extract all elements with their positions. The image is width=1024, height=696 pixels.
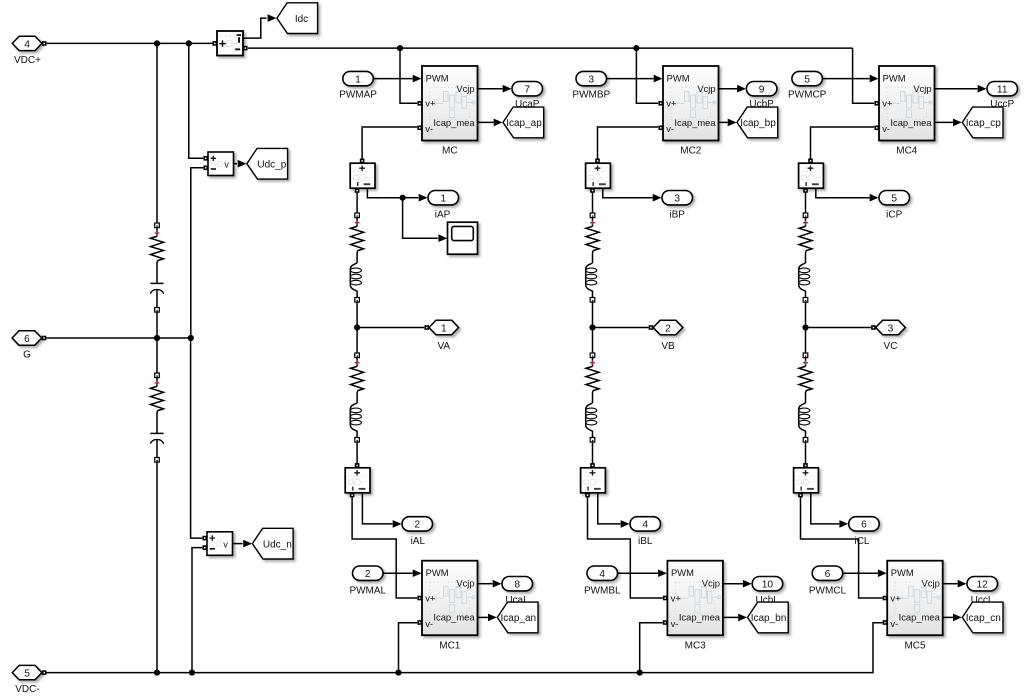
wire sensor i-output phase C <box>816 188 870 197</box>
svg-text:Icap_bn: Icap_bn <box>751 613 787 624</box>
goto tag Icap_bp <box>737 107 778 138</box>
series RL branch lower phase C <box>799 353 812 442</box>
inport 3 PWMBP <box>576 71 607 85</box>
wire lower sensor to MC3 v+ <box>588 497 663 598</box>
svg-text:Icap_mea: Icap_mea <box>433 117 475 128</box>
svg-text:5: 5 <box>24 669 30 680</box>
current measurement block Idc sensor <box>217 31 243 56</box>
arrowhead PWM input MC3 <box>658 569 667 577</box>
svg-text:Idc: Idc <box>295 14 308 25</box>
svg-text:PWMAP: PWMAP <box>339 90 377 101</box>
svg-text:VC: VC <box>884 341 898 352</box>
wire MC Vcjp output <box>478 88 503 90</box>
goto tag Icap_cp <box>962 107 1003 138</box>
inport 2 PWMAL <box>353 566 384 580</box>
svg-text:Vcjp: Vcjp <box>456 578 474 589</box>
wire rail to MC4 v+ <box>853 48 875 103</box>
input port 6 G <box>12 331 42 345</box>
svg-text:VDC-: VDC- <box>15 684 39 695</box>
svg-text:5: 5 <box>891 193 897 204</box>
wire Udc_p output <box>234 163 237 165</box>
svg-text:v-: v- <box>666 123 674 134</box>
svg-text:12: 12 <box>977 579 989 590</box>
wire PWMAP to MC PWM <box>373 78 413 80</box>
svg-text:VA: VA <box>437 341 450 352</box>
arrowhead PWM input MC4 <box>870 75 879 83</box>
outport 12 UccL <box>967 577 998 591</box>
wire MC4 Icap_mea output <box>935 121 953 123</box>
svg-text:Udc_n: Udc_n <box>263 539 292 550</box>
svg-text:4: 4 <box>24 39 30 50</box>
svg-text:PWMCL: PWMCL <box>809 586 847 597</box>
svg-text:Icap_mea: Icap_mea <box>899 612 941 623</box>
arrowhead into outport 9 <box>737 85 746 93</box>
arrowhead into outport 8 <box>493 580 502 588</box>
input port 4 VDC+ <box>12 36 42 50</box>
wire DC+ measured rail <box>248 47 853 49</box>
outport 5 iCP <box>879 191 910 205</box>
goto tag Icap_bn <box>748 602 789 633</box>
svg-text:v-: v- <box>882 123 890 134</box>
svg-text:3: 3 <box>588 74 594 85</box>
wire MC2 Icap_mea output <box>719 121 728 123</box>
node junction VDC-/left rail <box>154 670 160 676</box>
svg-text:iCL: iCL <box>854 536 869 547</box>
wire to Udc_p + input <box>189 45 203 158</box>
svg-text:iBP: iBP <box>669 209 685 220</box>
node VC junction <box>802 324 808 330</box>
svg-text:Icap_an: Icap_an <box>501 613 537 624</box>
arrowhead into iAP port <box>419 194 428 202</box>
svg-text:Icap_cn: Icap_cn <box>966 613 1001 624</box>
wire MC4 v- to sensor <box>811 127 875 160</box>
svg-text:v-: v- <box>671 618 679 629</box>
node junction G/Udc rail <box>188 335 194 341</box>
wire MC1 Vcjp output <box>478 583 493 585</box>
series RL branch lower phase B <box>586 353 599 442</box>
svg-text:MC: MC <box>442 146 458 157</box>
svg-text:Icap_mea: Icap_mea <box>679 612 721 623</box>
subsystem block MC4 <box>879 66 935 141</box>
svg-text:2: 2 <box>665 324 671 335</box>
svg-text:Icap_bp: Icap_bp <box>740 118 776 129</box>
inport 5 PWMCP <box>792 71 823 85</box>
wire sensor i-output phase A <box>367 188 402 197</box>
svg-text:Icap_mea: Icap_mea <box>433 612 475 623</box>
arrowhead into outport 10 <box>743 580 752 588</box>
svg-text:v-: v- <box>425 123 433 134</box>
subsystem block MC5 <box>887 561 943 636</box>
wire PWMCP to MC4 PWM <box>822 78 870 80</box>
wire Udc_n output <box>233 543 243 545</box>
svg-text:Vcjp: Vcjp <box>913 83 931 94</box>
wire RC upper to G rail <box>156 312 158 336</box>
svg-text:PWMAL: PWMAL <box>349 586 386 597</box>
svg-text:7: 7 <box>524 84 530 95</box>
svg-text:MC1: MC1 <box>439 640 461 651</box>
svg-text:4: 4 <box>642 520 648 531</box>
wire left rail upper segment <box>156 45 158 223</box>
svg-text:3: 3 <box>674 193 680 204</box>
wire G rail to RC lower <box>156 338 158 373</box>
wire G rail <box>46 337 191 339</box>
svg-text:2: 2 <box>414 520 420 531</box>
wire junction to iAP port <box>403 197 419 199</box>
node junction VDC+/Udc_p <box>186 40 192 46</box>
voltage measurement block Udc_n <box>207 532 233 556</box>
outport 6 iCL <box>849 517 880 531</box>
arrowhead into Idc tag <box>268 14 277 22</box>
svg-text:MC2: MC2 <box>680 146 702 157</box>
wire lower sensor to MC5 v+ <box>801 497 883 598</box>
connection port 1 VA <box>429 320 459 334</box>
wire MC5 Icap_mea output <box>943 616 953 618</box>
arrowhead into Icap_ap tag <box>494 119 503 127</box>
svg-text:10: 10 <box>762 579 774 590</box>
wire Idc sensor i-output to Idc tag <box>243 18 266 38</box>
svg-text:9: 9 <box>759 84 765 95</box>
goto tag Idc <box>277 3 318 34</box>
svg-text:MC4: MC4 <box>896 146 918 157</box>
svg-text:8: 8 <box>514 579 520 590</box>
wire junction to scope <box>403 198 438 239</box>
wire MC2 v- to sensor <box>598 127 659 160</box>
arrowhead PWM input MC1 <box>413 569 422 577</box>
wire to VB port <box>593 327 649 329</box>
wire MC1 Icap_mea output <box>478 616 488 618</box>
wire lower sensor i-output phase B <box>598 493 621 524</box>
svg-text:MC5: MC5 <box>904 640 926 651</box>
svg-text:v+: v+ <box>890 592 901 603</box>
outport 3 iBP <box>662 191 693 205</box>
wire lower sensor to MC1 v+ <box>352 497 417 598</box>
inport 4 PWMBL <box>587 566 618 580</box>
wire MC1 v- to VDC- rail <box>399 623 418 671</box>
wire PWMBP to MC2 PWM <box>606 78 654 80</box>
node junction VDC-/Udc_n <box>189 670 195 676</box>
outport 10 UcbL <box>752 577 783 591</box>
arrowhead into Icap_an tag <box>488 614 497 622</box>
svg-text:Icap_mea: Icap_mea <box>890 117 932 128</box>
arrowhead into Icap_bp tag <box>728 119 737 127</box>
current sensor phase A upper <box>350 163 375 188</box>
goto tag Udc_n <box>252 528 293 559</box>
outport 11 UccP <box>987 82 1018 96</box>
wire PWMBL to MC3 PWM <box>617 572 658 574</box>
svg-text:MC3: MC3 <box>685 640 707 651</box>
arrowhead PWM input MC2 <box>654 75 663 83</box>
outport 7 UcaP <box>512 82 543 96</box>
svg-text:PWMBP: PWMBP <box>572 90 610 101</box>
series RL branch upper phase C <box>799 213 812 302</box>
wire PWMCL to MC5 PWM <box>842 572 878 574</box>
arrowhead into outport 7 <box>503 85 512 93</box>
goto tag Icap_cn <box>962 602 1003 633</box>
wire rail to MC v+ <box>400 48 417 103</box>
arrowhead into Icap_cp tag <box>953 119 962 127</box>
svg-text:iCP: iCP <box>886 209 902 220</box>
wire MC Icap_mea output <box>478 121 494 123</box>
series RC branch lower (left rail) <box>150 373 164 462</box>
goto tag Udc_p <box>247 148 288 179</box>
subsystem block MC1 <box>422 561 478 636</box>
svg-text:v+: v+ <box>425 98 436 109</box>
node VB junction <box>589 324 595 330</box>
node junction VDC-/MC3 v- <box>637 670 643 676</box>
svg-text:Vcjp: Vcjp <box>456 83 474 94</box>
current sensor phase B upper <box>586 163 611 188</box>
wire G node to Udc_n + input <box>191 340 203 538</box>
arrowhead into iBL port <box>621 520 630 528</box>
svg-text:1: 1 <box>441 324 447 335</box>
outport 2 iAL <box>402 517 433 531</box>
svg-text:3: 3 <box>888 324 894 335</box>
wire sensor to RL branch upper phase A <box>356 193 358 213</box>
input port 5 VDC- <box>12 665 42 679</box>
series RL branch upper phase A <box>350 213 363 302</box>
wire RL branch to lower sensor phase C <box>805 442 807 464</box>
wire to VA port <box>357 327 424 329</box>
svg-text:Icap_cp: Icap_cp <box>966 118 1001 129</box>
wire rail to MC2 v+ <box>636 48 658 103</box>
outport 4 iBL <box>630 517 661 531</box>
arrowhead PWM input MC <box>413 75 422 83</box>
svg-text:Vcjp: Vcjp <box>702 578 720 589</box>
inport 6 PWMCL <box>812 566 843 580</box>
svg-text:iBL: iBL <box>638 536 653 547</box>
wire lower sensor i-output phase A <box>362 493 392 524</box>
svg-text:PWMCP: PWMCP <box>788 90 827 101</box>
node junction VDC-/MC1 v- <box>395 670 401 676</box>
svg-text:6: 6 <box>825 569 831 580</box>
arrowhead into Icap_bn tag <box>738 614 747 622</box>
outport 1 iAP <box>428 191 459 205</box>
wire to VC port <box>806 327 871 329</box>
svg-text:PWMBL: PWMBL <box>584 586 621 597</box>
series RC branch upper (left rail) <box>150 223 164 312</box>
connection port 2 VB <box>653 320 683 334</box>
svg-text:v+: v+ <box>671 592 682 603</box>
wire sensor to RL branch upper phase B <box>592 193 594 213</box>
series RL branch lower phase A <box>350 353 363 442</box>
svg-text:2: 2 <box>365 569 371 580</box>
scope block <box>448 222 478 254</box>
wire PWMAL to MC1 PWM <box>383 572 413 574</box>
connection port 3 VC <box>876 320 906 334</box>
wire MC3 Vcjp output <box>723 583 743 585</box>
svg-text:v+: v+ <box>425 592 436 603</box>
svg-text:Icap_mea: Icap_mea <box>674 117 716 128</box>
wire Udc_p - input down to G node <box>191 168 203 336</box>
svg-text:PWM: PWM <box>426 72 449 83</box>
arrowhead into scope <box>438 234 447 242</box>
node junction rail/MC v+ <box>397 45 403 51</box>
node junction VDC+/left rail <box>154 40 160 46</box>
current sensor phase C upper <box>799 163 824 188</box>
wire RL to RL through VC node <box>805 302 807 353</box>
svg-text:Vcjp: Vcjp <box>922 578 940 589</box>
svg-text:Udc_p: Udc_p <box>257 159 286 170</box>
wire MC5 Vcjp output <box>943 583 958 585</box>
wire Udc_n - input down to VDC- rail <box>192 548 202 671</box>
node junction G/left rail <box>154 335 160 341</box>
subsystem block MC3 <box>667 561 723 636</box>
wire MC3 Icap_mea output <box>723 616 738 618</box>
wire MC v- to sensor <box>362 127 417 160</box>
arrowhead into Udc_n tag <box>243 540 252 548</box>
wire MC2 Vcjp output <box>719 88 737 90</box>
subsystem block MC2 <box>663 66 719 141</box>
arrowhead into iBP port <box>653 194 662 202</box>
svg-text:Icap_ap: Icap_ap <box>506 118 542 129</box>
svg-text:5: 5 <box>804 74 810 85</box>
wire sensor i-output phase B <box>603 188 653 197</box>
svg-text:PWM: PWM <box>667 72 690 83</box>
svg-text:iAP: iAP <box>435 209 451 220</box>
svg-text:iAL: iAL <box>411 536 426 547</box>
svg-text:v-: v- <box>425 618 433 629</box>
svg-text:G: G <box>23 350 31 361</box>
wire sensor to RL branch upper phase C <box>805 193 807 213</box>
svg-text:6: 6 <box>861 520 867 531</box>
svg-text:PWM: PWM <box>891 567 914 578</box>
node VA junction <box>354 324 360 330</box>
arrowhead into iCP port <box>870 194 879 202</box>
goto tag Icap_ap <box>503 107 544 138</box>
wire RL branch to lower sensor phase A <box>356 442 358 464</box>
wire left rail lower segment <box>156 462 158 670</box>
wire VDC+ rail <box>47 42 213 44</box>
wire RL to RL through VB node <box>592 302 594 353</box>
arrowhead into outport 11 <box>978 85 987 93</box>
svg-text:PWM: PWM <box>671 567 694 578</box>
subsystem block MC <box>422 66 478 141</box>
wire MC4 Vcjp output <box>935 88 978 90</box>
svg-text:PWM: PWM <box>426 567 449 578</box>
svg-text:v-: v- <box>890 618 898 629</box>
svg-text:PWM: PWM <box>883 72 906 83</box>
wire MC3 v- to VDC- rail <box>640 623 663 671</box>
svg-text:v+: v+ <box>666 98 677 109</box>
goto tag Icap_an <box>497 602 538 633</box>
outport 8 UcaL <box>502 577 533 591</box>
wire RL branch to lower sensor phase B <box>592 442 594 464</box>
wire RL to RL through VA node <box>356 302 358 353</box>
arrowhead PWM input MC5 <box>878 569 887 577</box>
svg-text:v+: v+ <box>882 98 893 109</box>
arrowhead into iCL port <box>839 520 848 528</box>
svg-text:VB: VB <box>661 341 675 352</box>
current sensor phase B lower <box>581 468 606 493</box>
svg-text:11: 11 <box>997 84 1008 95</box>
arrowhead into iAL port <box>393 520 402 528</box>
voltage measurement block Udc_p <box>208 152 234 176</box>
arrowhead into Icap_cn tag <box>953 614 962 622</box>
inport 1 PWMAP <box>343 71 374 85</box>
arrowhead into Udc_p tag <box>238 160 247 168</box>
svg-text:v: v <box>223 538 228 549</box>
svg-text:VDC+: VDC+ <box>14 55 41 66</box>
wire VDC- bottom rail <box>47 623 883 673</box>
wire lower sensor i-output phase C <box>811 493 840 524</box>
svg-text:v: v <box>224 159 229 170</box>
svg-text:1: 1 <box>440 193 446 204</box>
node junction rail/MC2 v+ <box>633 45 639 51</box>
series RL branch upper phase B <box>586 213 599 302</box>
outport 9 UcbP <box>746 82 777 96</box>
current sensor phase A lower <box>345 468 370 493</box>
svg-text:Vcjp: Vcjp <box>697 83 715 94</box>
node junction iAP <box>400 195 406 201</box>
arrowhead into outport 12 <box>958 580 967 588</box>
svg-text:1: 1 <box>355 74 361 85</box>
current sensor phase C lower <box>794 468 819 493</box>
svg-text:6: 6 <box>24 334 30 345</box>
svg-text:4: 4 <box>599 569 605 580</box>
